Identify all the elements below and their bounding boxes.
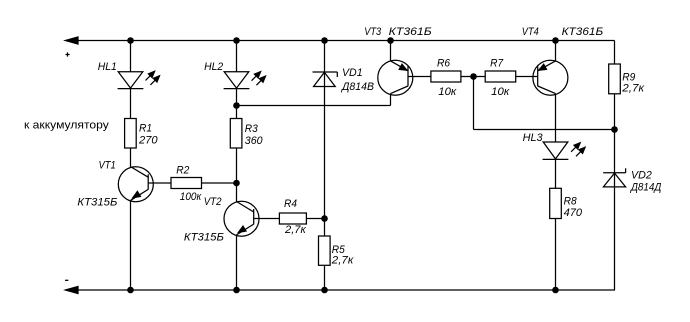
wire rail to VT3 emitter — [390, 41, 392, 62]
svg-text:10к: 10к — [438, 86, 457, 98]
svg-text:270: 270 — [138, 135, 159, 147]
svg-text:HL2: HL2 — [204, 61, 223, 73]
svg-text:2,7к: 2,7к — [284, 224, 307, 236]
wire top rail corner down to R9 — [614, 41, 616, 65]
node: R2 / R3 / VT2 collector — [233, 180, 240, 187]
svg-text:R1: R1 — [139, 122, 152, 134]
HL2 light arrows — [252, 72, 266, 86]
HL1 light arrows — [146, 71, 160, 85]
LED HL3 — [543, 142, 569, 159]
resistor R8 — [550, 188, 562, 218]
minus terminal mark — [65, 279, 68, 281]
svg-text:VT4: VT4 — [522, 26, 539, 38]
wire R7 to VT4 base — [516, 76, 538, 78]
node: bottom rail / R8 — [552, 287, 559, 294]
wire R1 to VT1 collector — [130, 148, 132, 167]
wire rail to VT4 emitter — [555, 41, 557, 62]
node: R4 / zener-R5 branch — [321, 215, 328, 222]
wire R2 to node — [202, 182, 237, 184]
svg-text:Д814Д: Д814Д — [629, 182, 661, 194]
wire HL3 cathode to R8 — [555, 159, 557, 188]
wire R5 to bottom rail — [324, 265, 326, 290]
svg-text:КТ315Б: КТ315Б — [184, 232, 224, 244]
svg-text:2,7к: 2,7к — [621, 83, 645, 95]
resistor R5 — [319, 236, 331, 265]
svg-text:360: 360 — [245, 135, 264, 147]
node: HL2 cathode / VT3 collector net — [233, 102, 240, 109]
wire R6/R7 node down then right to zener node — [473, 77, 475, 130]
svg-text:R3: R3 — [245, 123, 259, 135]
wire node to VT2 collector — [236, 183, 238, 202]
svg-text:470: 470 — [564, 207, 583, 219]
wire VT3 collector down/left to HL2 node — [390, 94, 392, 106]
wire rail to HL2 anode — [236, 41, 238, 72]
wire R4 to node — [306, 218, 324, 220]
wire VT4 collector to HL3 (crosses base net, no dot) — [555, 94, 557, 142]
wire rail down through VD1 to R5 — [324, 41, 326, 237]
zener diode VD2 (Д814Д) — [603, 168, 625, 187]
resistor R6 — [431, 71, 461, 82]
resistor R2 — [171, 178, 202, 189]
transistor VT2 (КТ315Б npn) — [224, 201, 279, 236]
svg-text:к аккумулятору: к аккумулятору — [24, 120, 109, 132]
transistor VT4 (КТ361Б pnp, mirrored) — [533, 60, 568, 95]
wire node to R3 — [236, 106, 238, 119]
wire node through VD2 to bottom rail — [614, 130, 616, 291]
wire VT2 emitter to bottom rail — [236, 235, 238, 290]
node: bottom rail / R5 — [321, 287, 328, 294]
node: bottom rail / VT2 emitter — [233, 287, 240, 294]
wire R3 to node — [236, 148, 238, 183]
resistor R4 — [279, 213, 306, 224]
svg-text:КТ315Б: КТ315Б — [77, 197, 117, 209]
resistor R7 — [485, 71, 516, 82]
svg-text:10к: 10к — [491, 86, 510, 98]
LED HL2 — [224, 72, 250, 89]
LED HL1 — [118, 72, 144, 89]
bottom supply rail (-) — [65, 287, 615, 294]
zener diode VD1 (Д814В) — [313, 72, 338, 87]
svg-text:HL3: HL3 — [523, 132, 544, 144]
node: R9 / VD2 / base net — [611, 126, 618, 133]
svg-text:КТ361Б: КТ361Б — [389, 26, 432, 38]
svg-text:VT3: VT3 — [364, 26, 382, 38]
wire R9 to node — [614, 94, 616, 130]
svg-text:VT2: VT2 — [204, 196, 222, 208]
svg-text:КТ361Б: КТ361Б — [562, 26, 604, 38]
node: top rail / VT3 emitter — [387, 37, 394, 44]
svg-text:R9: R9 — [622, 71, 635, 83]
svg-text:Д814В: Д814В — [340, 81, 374, 93]
resistor R3 — [230, 119, 242, 149]
node: top rail / VD1 branch — [321, 37, 328, 44]
resistor R9 — [609, 64, 621, 94]
resistor R1 — [125, 119, 137, 149]
svg-text:R7: R7 — [490, 57, 504, 69]
node: top rail / HL2 branch — [233, 37, 240, 44]
node: top rail / HL1 branch — [127, 37, 134, 44]
svg-text:R2: R2 — [176, 165, 189, 177]
svg-text:R4: R4 — [284, 198, 297, 210]
node: top rail / VT4 emitter — [552, 37, 559, 44]
wire rail to HL1 anode — [130, 41, 132, 72]
wire HL1 cathode to R1 — [130, 89, 132, 119]
svg-text:VD1: VD1 — [342, 67, 363, 79]
wire R8 to bottom rail — [555, 219, 557, 291]
wire HL2 cathode to node — [236, 89, 238, 106]
svg-text:R6: R6 — [437, 57, 451, 69]
svg-text:R8: R8 — [564, 196, 578, 208]
node: bottom rail / VT1 emitter — [127, 287, 134, 294]
wire R6 to node — [461, 76, 485, 78]
svg-text:VD2: VD2 — [631, 169, 652, 181]
plus terminal mark — [66, 52, 70, 56]
HL3 light arrows — [571, 143, 585, 157]
svg-text:2,7к: 2,7к — [331, 254, 354, 266]
node: R6 / R7 junction — [470, 73, 477, 80]
top supply rail (+) — [65, 37, 614, 44]
svg-text:VT1: VT1 — [99, 160, 116, 172]
svg-text:HL1: HL1 — [98, 61, 117, 73]
transistor VT3 (КТ361Б pnp) — [378, 60, 431, 95]
wire VT1 emitter to bottom rail — [130, 200, 132, 290]
svg-text:100к: 100к — [180, 191, 202, 203]
transistor VT1 (КТ315Б npn) — [118, 167, 171, 202]
